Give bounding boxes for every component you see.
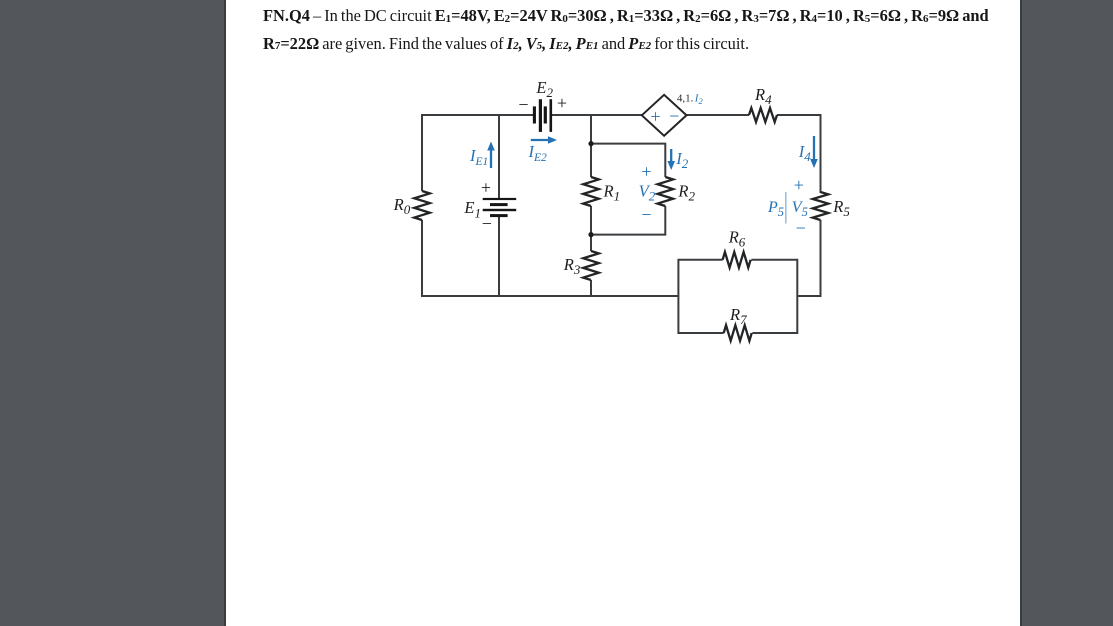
svg-text:I4: I4: [798, 142, 812, 164]
svg-text:V2: V2: [639, 182, 656, 204]
svg-text:−: −: [482, 214, 492, 234]
svg-text:IE2: IE2: [528, 142, 548, 164]
svg-text:IE1: IE1: [469, 146, 488, 168]
svg-text:+: +: [557, 93, 567, 113]
svg-text:R7: R7: [729, 305, 747, 327]
svg-text:+: +: [794, 175, 804, 195]
svg-text:I2: I2: [694, 93, 704, 107]
svg-text:R0: R0: [393, 195, 411, 217]
svg-text:+: +: [481, 178, 491, 198]
svg-text:R4: R4: [754, 85, 772, 107]
svg-text:E1: E1: [463, 198, 481, 220]
svg-text:R2: R2: [677, 182, 695, 204]
svg-text:R5: R5: [832, 197, 850, 219]
svg-text:R6: R6: [728, 228, 746, 250]
svg-text:−: −: [796, 218, 806, 238]
svg-text:+: +: [641, 162, 651, 182]
svg-text:−: −: [641, 205, 651, 225]
svg-text:V5: V5: [792, 199, 808, 219]
svg-text:R1: R1: [603, 182, 621, 204]
svg-text:R3: R3: [563, 255, 581, 277]
svg-text:−: −: [518, 95, 528, 115]
svg-text:4,1.: 4,1.: [677, 93, 694, 105]
svg-text:−: −: [669, 106, 679, 126]
svg-text:+: +: [650, 106, 660, 126]
svg-text:P5: P5: [767, 199, 784, 219]
svg-text:I2: I2: [675, 149, 689, 171]
svg-text:E2: E2: [535, 78, 553, 100]
